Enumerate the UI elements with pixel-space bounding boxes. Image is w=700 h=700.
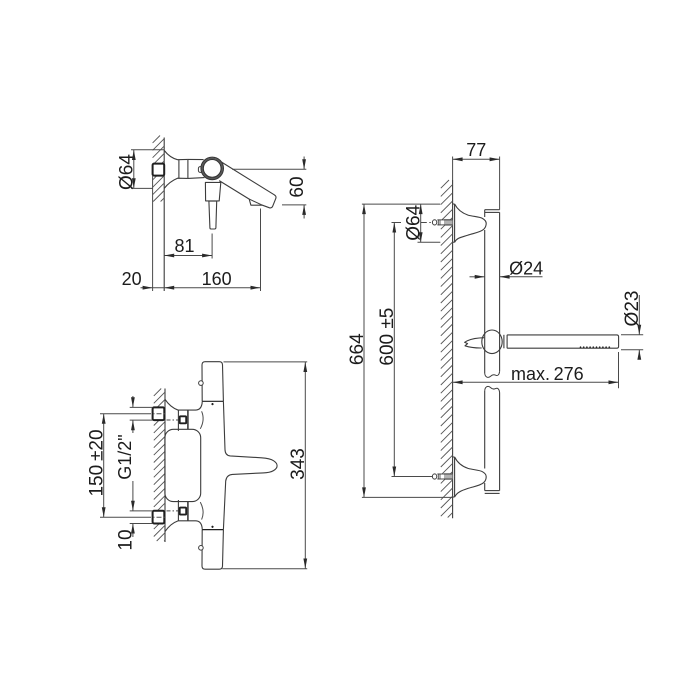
inlet neck lower (top view) bbox=[177, 500, 179, 521]
lever handle (side view) bbox=[205, 182, 220, 201]
body and spout (top view) bbox=[223, 401, 277, 529]
dimension 81 bbox=[211, 234, 213, 259]
svg-text:20: 20 bbox=[122, 269, 142, 289]
dimension 77 bbox=[452, 157, 454, 181]
svg-text:10: 10 bbox=[116, 529, 137, 550]
handle knob ring bbox=[198, 167, 202, 173]
wall supply square upper (top view) bbox=[153, 407, 165, 420]
dimension 343 bbox=[224, 361, 308, 363]
slider knob bbox=[482, 330, 502, 354]
dimension 10 bbox=[130, 510, 153, 512]
handle cap top (top view) bbox=[202, 362, 223, 402]
dimension 664 bbox=[362, 203, 440, 205]
shower hose stub (broken) bbox=[465, 338, 485, 348]
inlet neck upper (top view) bbox=[177, 410, 179, 431]
svg-text:77: 77 bbox=[466, 140, 486, 160]
dimension 150 plus-minus 20 bbox=[100, 413, 146, 415]
svg-text:Ø24: Ø24 bbox=[509, 259, 543, 279]
svg-text:Ø64: Ø64 bbox=[117, 154, 138, 190]
shower rail bar bbox=[485, 209, 500, 211]
svg-text:160: 160 bbox=[202, 269, 232, 289]
thermostat barrel capsule (top view) bbox=[165, 429, 201, 501]
wall supply square lower (top view) bbox=[153, 511, 165, 524]
mixer body neck (side view) bbox=[188, 158, 204, 160]
spout (side view) bbox=[219, 162, 276, 208]
escutcheon upper (top view) bbox=[165, 399, 202, 410]
handle cap bottom (top view) bbox=[202, 530, 223, 570]
svg-text:81: 81 bbox=[174, 236, 194, 256]
hand shower holder collar bbox=[503, 335, 505, 349]
dimension D64 (rail view) bbox=[418, 241, 441, 243]
dimension D64 (side view) bbox=[131, 149, 164, 151]
wall section (top view) bbox=[164, 389, 166, 543]
svg-text:max. 276: max. 276 bbox=[511, 364, 584, 384]
dimension 600 plus-minus 5 bbox=[392, 222, 402, 224]
hand shower knurl dots bbox=[580, 347, 581, 348]
dimension 60 bbox=[232, 168, 306, 170]
svg-text:Ø64: Ø64 bbox=[403, 204, 424, 240]
dimension D24 bbox=[470, 276, 485, 278]
svg-text:Ø23: Ø23 bbox=[622, 291, 643, 327]
wall section (rail view) bbox=[452, 180, 454, 518]
escutcheon trumpet (side view) bbox=[164, 151, 188, 160]
dimension D23 bbox=[621, 334, 643, 336]
svg-text:60: 60 bbox=[287, 176, 308, 197]
wall supply fitting square (side view) bbox=[153, 164, 165, 176]
dimension G half inch bbox=[130, 406, 153, 408]
svg-text:G1/2": G1/2" bbox=[115, 434, 135, 479]
svg-text:150 ±20: 150 ±20 bbox=[87, 429, 108, 496]
dimension extension line 20-left bbox=[152, 176, 154, 291]
svg-text:664: 664 bbox=[347, 333, 368, 365]
escutcheon lower (top view) bbox=[165, 521, 202, 532]
hand shower tube bbox=[507, 335, 618, 348]
svg-text:600 ±5: 600 ±5 bbox=[377, 308, 398, 366]
dimension max 276 bbox=[618, 352, 620, 388]
wall section (side view) bbox=[163, 138, 165, 292]
svg-text:343: 343 bbox=[288, 448, 309, 480]
dimension 20 and 160 bbox=[260, 209, 262, 292]
mounting screw top bbox=[421, 222, 455, 224]
mounting screw bottom bbox=[421, 476, 455, 478]
wall bracket top (rail view) bbox=[454, 204, 456, 242]
wall bracket bottom (rail view) bbox=[454, 457, 456, 497]
